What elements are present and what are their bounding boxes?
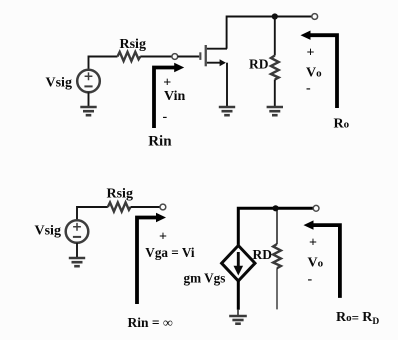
svg-text:+: + bbox=[307, 46, 315, 61]
wire Vsig2 to Rsig2 bbox=[77, 207, 108, 220]
junction dot drain node bbox=[272, 13, 278, 19]
transistor M1 gate bar bbox=[199, 52, 201, 60]
svg-text:-: - bbox=[163, 110, 168, 125]
junction dot RD node (bottom) bbox=[273, 205, 279, 211]
measurement arrow Vo/Ro (bottom) bbox=[311, 225, 340, 298]
transistor M1 source lead with arrow bbox=[207, 62, 220, 64]
node output open circle bbox=[312, 14, 318, 20]
resistor Rsig bbox=[118, 52, 141, 61]
svg-text:Rin = ∞: Rin = ∞ bbox=[128, 315, 173, 330]
wire Rsig to gate node bbox=[140, 56, 172, 58]
node gate2 open circle bbox=[160, 204, 166, 210]
wire Vsig to ground bbox=[88, 92, 90, 107]
resistor Rsig2 bbox=[108, 202, 131, 211]
svg-text:Rsig: Rsig bbox=[120, 37, 146, 52]
dependent source arrow bbox=[237, 252, 240, 268]
measurement arrow Vo/Ro (top) bbox=[308, 35, 337, 108]
measurement arrow Rin (bottom) bbox=[137, 218, 158, 305]
wire Vsig2 to ground bbox=[76, 243, 78, 258]
wire RD top bbox=[274, 17, 276, 56]
svg-text:+: + bbox=[309, 236, 317, 251]
measurement arrow Rin (top) bbox=[154, 68, 177, 129]
ground (dependent source) bbox=[229, 316, 247, 324]
svg-text:Vin: Vin bbox=[164, 89, 185, 104]
wire RD bottom bbox=[274, 80, 276, 108]
ground (Vsig bottom) bbox=[69, 258, 85, 266]
svg-text:gm Vgs: gm Vgs bbox=[184, 271, 226, 286]
svg-text:Rsig: Rsig bbox=[107, 187, 133, 202]
svg-text:-: - bbox=[306, 81, 311, 96]
svg-text:+: + bbox=[159, 230, 167, 245]
ground (Vsig top) bbox=[80, 107, 96, 115]
svg-text:Rin: Rin bbox=[148, 134, 172, 150]
wire diamond to ground bbox=[237, 281, 240, 310]
source Vsig bbox=[77, 70, 100, 93]
svg-text:RD: RD bbox=[249, 57, 269, 72]
svg-text:-: - bbox=[308, 272, 313, 287]
svg-text:Vsig: Vsig bbox=[46, 76, 72, 91]
wire Vsig to Rsig bbox=[89, 57, 118, 70]
ground (MOSFET source) bbox=[219, 107, 235, 115]
ground (RD) bbox=[267, 107, 283, 115]
wire top rail (bottom circuit) bbox=[238, 208, 313, 246]
transistor M1 drain lead bbox=[207, 48, 227, 50]
wire top rail bbox=[227, 17, 312, 49]
wire Rsig2 to gate node bbox=[131, 206, 160, 208]
wire RD2 top bbox=[276, 210, 278, 244]
svg-text:Vo: Vo bbox=[308, 256, 324, 271]
svg-text:RD: RD bbox=[253, 247, 273, 262]
wire gate lead bbox=[178, 56, 200, 58]
resistor RD2 bbox=[273, 244, 281, 268]
node gate open circle bbox=[172, 54, 178, 60]
svg-text:Vga = Vi: Vga = Vi bbox=[145, 245, 195, 260]
svg-text:Ro: Ro bbox=[334, 117, 350, 132]
wire RD2 bottom bbox=[276, 268, 278, 309]
resistor RD bbox=[271, 56, 279, 80]
transistor M1 channel bar bbox=[205, 45, 207, 66]
svg-text:Vsig: Vsig bbox=[35, 224, 61, 239]
node output open circle (bottom) bbox=[313, 205, 319, 211]
svg-text:Vo: Vo bbox=[306, 66, 322, 81]
source Vsig2 bbox=[66, 220, 89, 243]
dependent source gmVgs diamond bbox=[222, 246, 255, 281]
